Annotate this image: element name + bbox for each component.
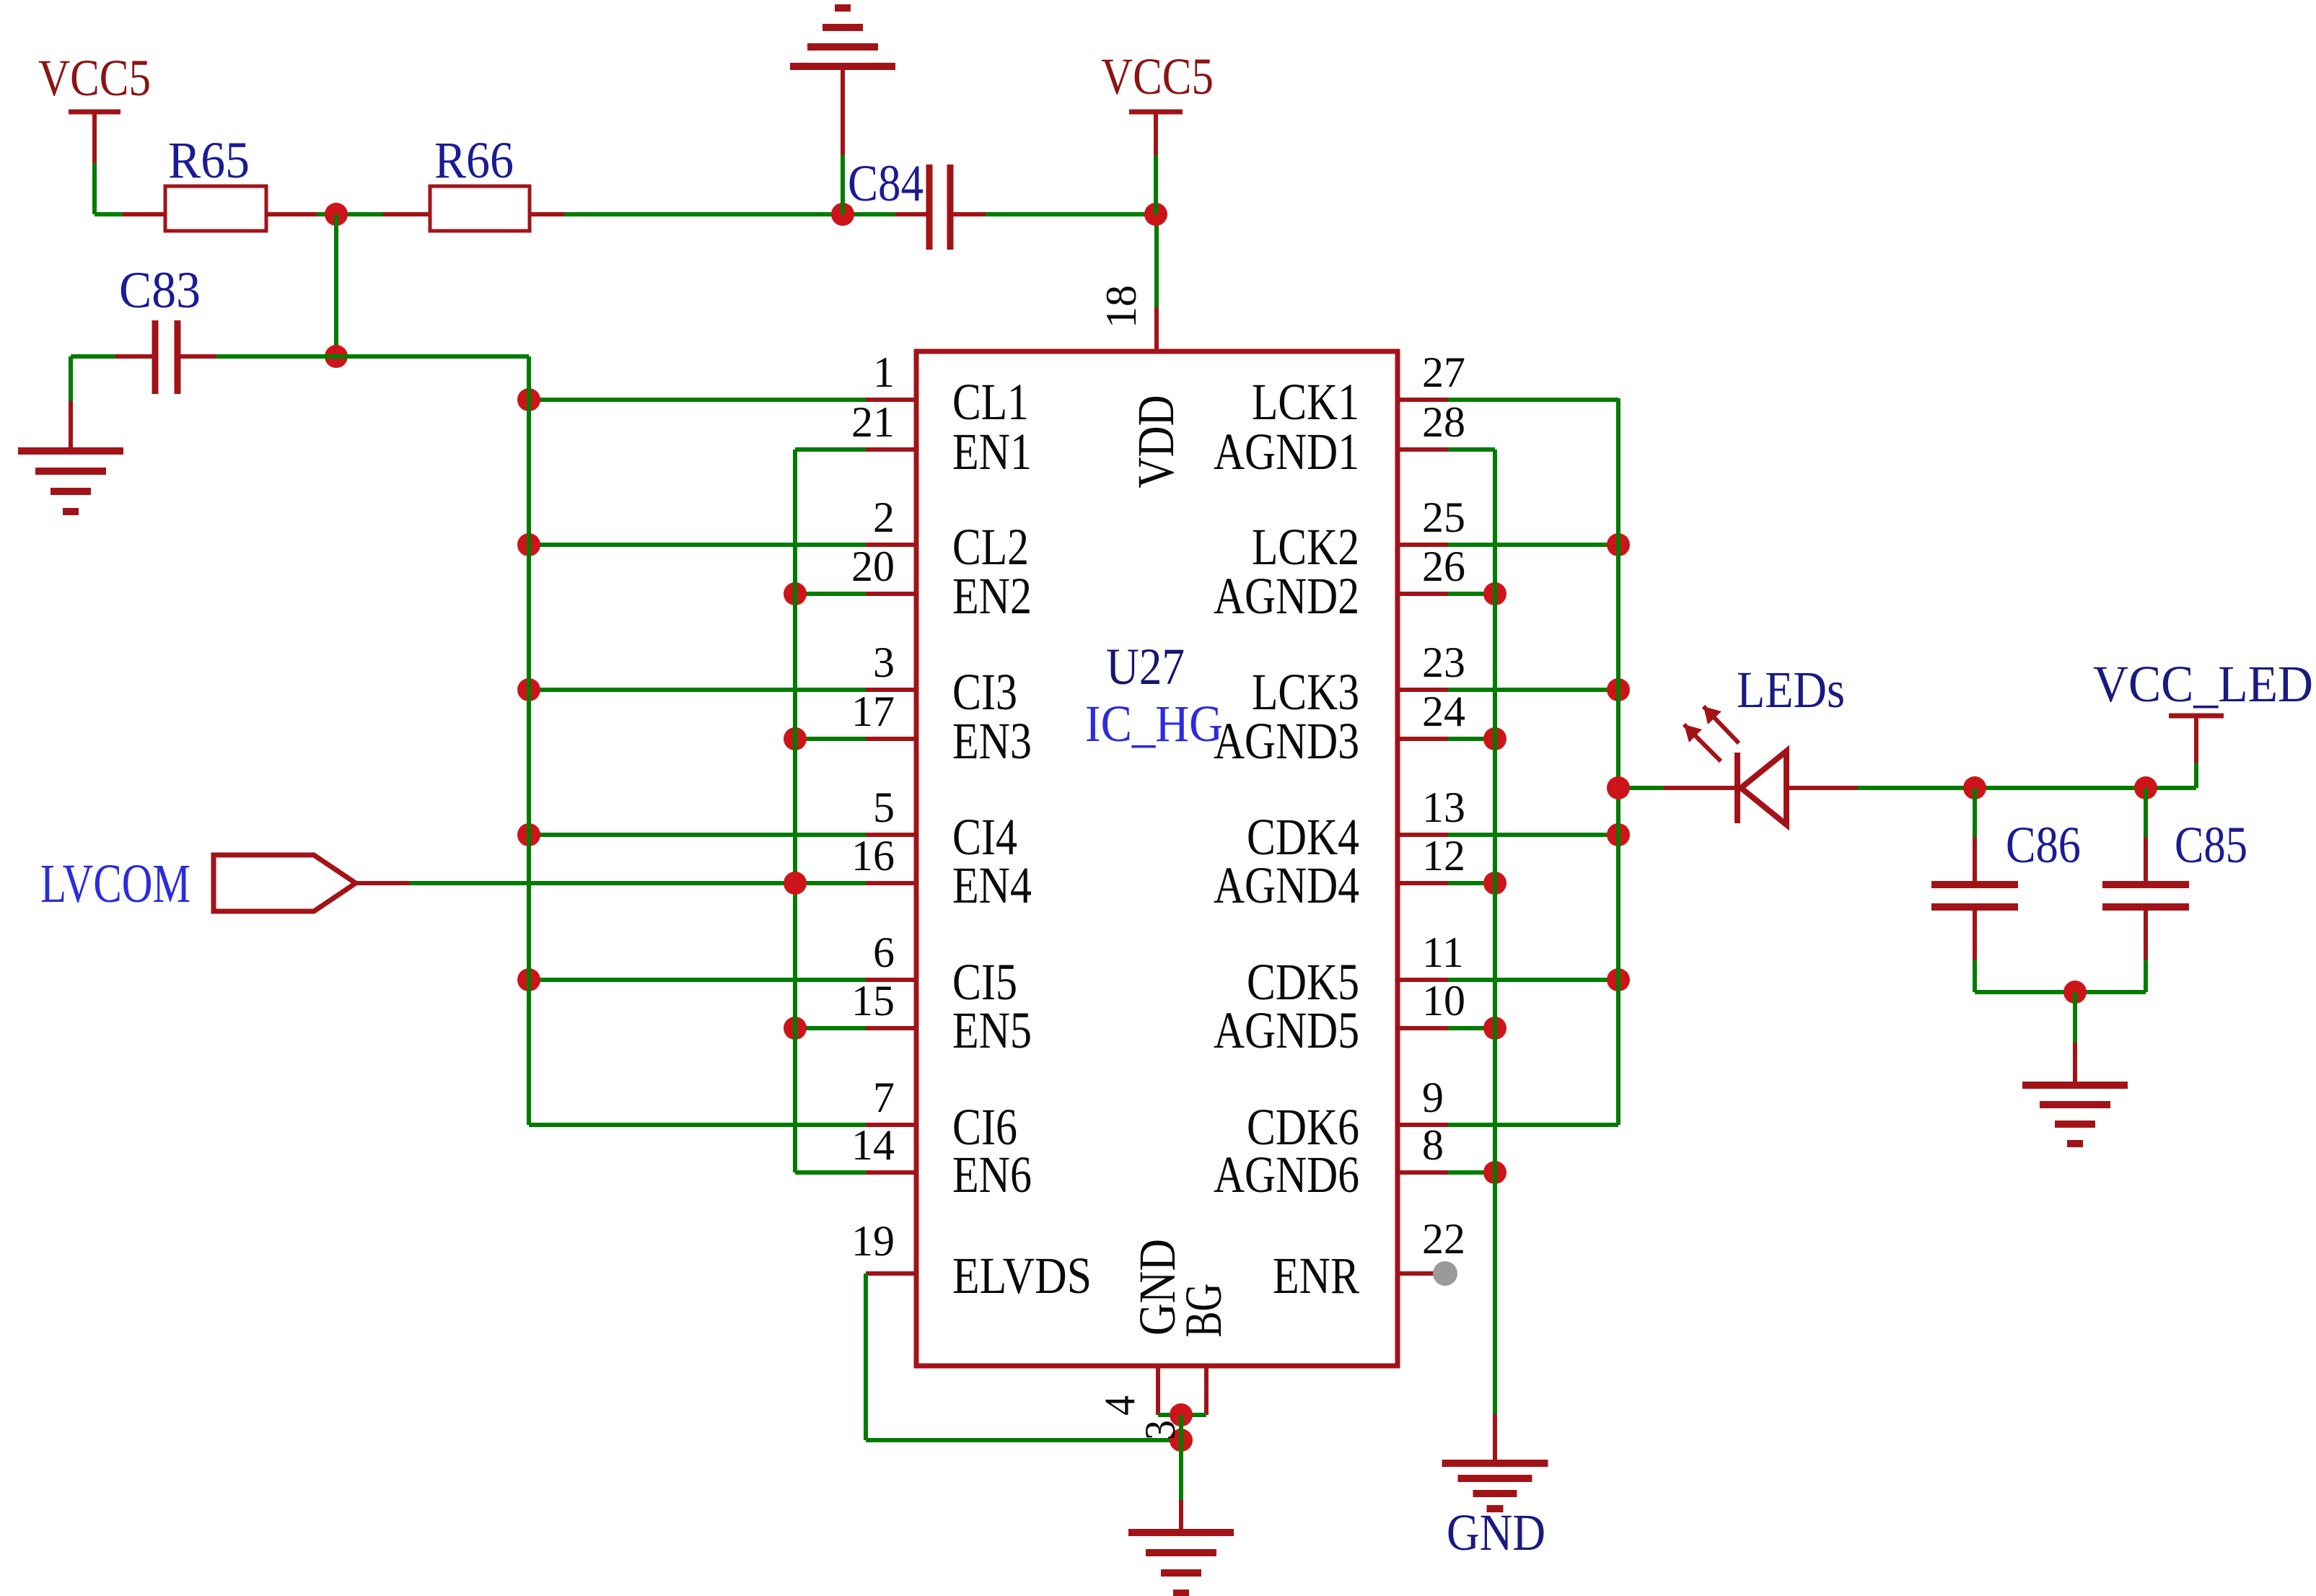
svg-text:AGND2: AGND2	[1214, 567, 1359, 625]
svg-text:7: 7	[873, 1074, 895, 1121]
svg-text:VCC5: VCC5	[1101, 48, 1214, 105]
svg-text:21: 21	[851, 398, 895, 446]
svg-text:18: 18	[1097, 285, 1145, 328]
svg-text:14: 14	[851, 1121, 895, 1169]
svg-text:C83: C83	[119, 261, 201, 319]
svg-text:6: 6	[873, 929, 895, 976]
svg-text:ELVDS: ELVDS	[952, 1247, 1092, 1305]
svg-text:C86: C86	[2006, 816, 2081, 874]
svg-text:3: 3	[873, 639, 895, 686]
svg-text:EN4: EN4	[952, 856, 1032, 914]
svg-text:AGND3: AGND3	[1214, 712, 1359, 770]
svg-text:20: 20	[851, 543, 895, 590]
svg-text:VDD: VDD	[1127, 395, 1185, 488]
svg-text:23: 23	[1422, 639, 1465, 686]
svg-text:AGND6: AGND6	[1214, 1146, 1359, 1203]
svg-text:IC_HG: IC_HG	[1085, 695, 1223, 753]
svg-text:27: 27	[1422, 348, 1465, 396]
svg-text:EN6: EN6	[952, 1146, 1032, 1203]
svg-text:R66: R66	[434, 131, 514, 189]
svg-text:25: 25	[1422, 494, 1465, 541]
svg-text:2: 2	[873, 494, 895, 541]
svg-text:C85: C85	[2175, 816, 2247, 874]
svg-text:19: 19	[851, 1217, 895, 1265]
svg-text:LCK1: LCK1	[1252, 373, 1359, 431]
svg-text:BG: BG	[1175, 1284, 1232, 1338]
svg-text:ENR: ENR	[1273, 1247, 1359, 1305]
svg-text:24: 24	[1422, 688, 1465, 735]
svg-text:12: 12	[1422, 832, 1465, 880]
svg-text:22: 22	[1422, 1215, 1465, 1263]
svg-text:13: 13	[1422, 784, 1465, 831]
svg-text:EN1: EN1	[952, 423, 1032, 481]
svg-text:5: 5	[873, 784, 895, 831]
svg-text:3: 3	[1136, 1420, 1184, 1440]
svg-text:GND: GND	[1447, 1504, 1545, 1561]
svg-text:R65: R65	[168, 131, 250, 189]
svg-text:EN2: EN2	[952, 567, 1032, 625]
svg-text:26: 26	[1422, 543, 1465, 590]
svg-text:8: 8	[1422, 1121, 1444, 1169]
svg-text:C84: C84	[848, 154, 924, 212]
svg-text:CL1: CL1	[952, 373, 1029, 431]
svg-text:AGND4: AGND4	[1214, 856, 1359, 914]
svg-text:4: 4	[1096, 1395, 1144, 1416]
svg-text:17: 17	[851, 688, 895, 735]
svg-text:1: 1	[873, 348, 895, 396]
svg-text:28: 28	[1422, 398, 1465, 446]
svg-text:16: 16	[851, 832, 895, 880]
svg-text:11: 11	[1422, 929, 1464, 976]
svg-text:9: 9	[1422, 1074, 1444, 1121]
svg-text:EN5: EN5	[952, 1001, 1032, 1059]
svg-text:AGND5: AGND5	[1214, 1001, 1359, 1059]
svg-text:AGND1: AGND1	[1214, 423, 1359, 481]
svg-text:VCC5: VCC5	[38, 49, 151, 107]
svg-text:LVCOM: LVCOM	[40, 854, 190, 914]
svg-text:EN3: EN3	[952, 712, 1032, 770]
svg-text:10: 10	[1422, 977, 1465, 1025]
svg-text:15: 15	[851, 977, 895, 1025]
svg-text:VCC_LED: VCC_LED	[2093, 655, 2313, 713]
svg-text:LEDs: LEDs	[1737, 661, 1845, 719]
svg-text:U27: U27	[1106, 638, 1185, 696]
